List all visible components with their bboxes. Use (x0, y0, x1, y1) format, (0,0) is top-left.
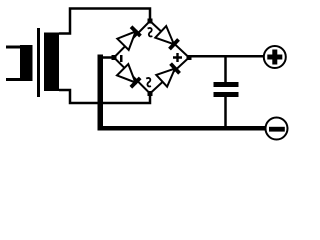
label AC tilde bottom (146, 78, 151, 86)
capacitor C1 bottom wire (224, 97, 227, 126)
transformer T1 primary winding bar (20, 45, 33, 81)
diamond bridge side left-top (114, 21, 150, 58)
diode D1 top-left (117, 26, 141, 50)
node plus junction dot (187, 55, 192, 60)
diamond bridge side bottom-right (150, 58, 189, 94)
diode D3 bottom-left (117, 64, 141, 88)
diode D4 bottom-right (156, 63, 180, 87)
transformer T1 secondary winding bar (44, 33, 59, 92)
label plus inside positive terminal (267, 50, 282, 65)
transformer T1 primary top lead (6, 46, 21, 49)
node AC top junction dot (148, 19, 153, 24)
transformer T1 primary bottom lead (6, 78, 21, 81)
diamond bridge side left-bottom (114, 58, 150, 94)
wire bridge minus node to thick negative bus (99, 56, 114, 59)
capacitor C1 top plate (214, 82, 239, 87)
terminal negative output circle (266, 118, 288, 140)
wire secondary top lead to bridge AC top node (59, 9, 150, 34)
diamond bridge side top-right (150, 21, 189, 58)
node AC bottom junction dot (148, 91, 153, 96)
terminal positive output circle (264, 46, 286, 68)
wire thick negative vertical bus (98, 55, 104, 131)
label minus inside negative terminal (269, 127, 285, 132)
capacitor C1 top wire (224, 56, 227, 82)
label AC tilde top (148, 28, 153, 36)
capacitor C1 bottom plate (214, 92, 239, 97)
wire bridge plus node to positive terminal (189, 55, 264, 58)
transformer T1 core (37, 28, 40, 97)
node minus junction dot (112, 55, 117, 60)
wire secondary bottom lead to bridge AC bottom node (59, 90, 150, 103)
label plus at plus node (173, 53, 182, 62)
diode D2 top-right (155, 26, 179, 50)
label minus rotated at minus node (120, 55, 123, 62)
wire thick negative bottom rail (98, 126, 266, 131)
